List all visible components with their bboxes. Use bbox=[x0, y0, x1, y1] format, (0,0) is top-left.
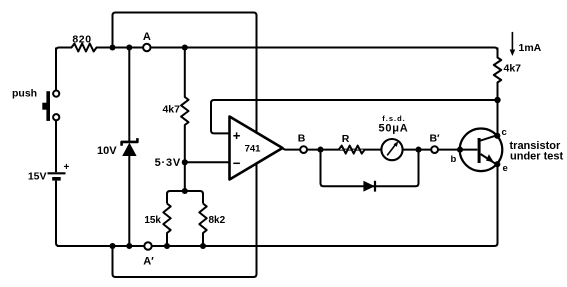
op-amp minus marker bbox=[233, 162, 240, 164]
svg-text:10V: 10V bbox=[97, 145, 117, 157]
svg-text:push: push bbox=[12, 88, 37, 100]
zener diode 10V branch wire bbox=[128, 48, 130, 142]
wire feedback from plus input to right rail bbox=[211, 100, 498, 133]
node B bbox=[300, 146, 307, 153]
svg-text:A′: A′ bbox=[143, 256, 154, 268]
resistor 4k7 left branch bbox=[181, 48, 188, 192]
battery 15V bbox=[48, 173, 66, 180]
wire op-amp output to transistor base bbox=[283, 149, 478, 150]
resistor 15k bbox=[163, 204, 170, 247]
node dot emitter bbox=[494, 161, 500, 167]
svg-text:under test: under test bbox=[510, 151, 564, 163]
svg-text:A: A bbox=[143, 31, 151, 43]
diode D1 bbox=[363, 181, 375, 192]
wire bottom rail bbox=[57, 164, 498, 246]
node dot 8k2 bottom bbox=[200, 243, 206, 249]
svg-text:820: 820 bbox=[72, 34, 91, 46]
wire bottom supply loop bbox=[113, 163, 257, 277]
node dot zener bottom bbox=[126, 243, 132, 249]
op-amp plus marker bbox=[233, 132, 240, 139]
svg-text:+: + bbox=[64, 162, 70, 173]
op-amp U1 741 bbox=[230, 117, 283, 180]
resistor 8k2 bbox=[199, 204, 206, 247]
wire divider top bar bbox=[167, 191, 203, 204]
svg-text:50μA: 50μA bbox=[378, 123, 408, 135]
node dot base bbox=[457, 147, 463, 153]
push button bbox=[42, 91, 59, 121]
wire diode bypass branch bbox=[321, 150, 419, 187]
svg-text:741: 741 bbox=[245, 144, 262, 155]
wire battery to bottom rail bbox=[56, 181, 59, 246]
resistor R bbox=[339, 146, 365, 154]
node dot collector bbox=[494, 133, 500, 139]
svg-text:e: e bbox=[503, 163, 508, 174]
wire push to battery bbox=[55, 120, 57, 172]
node dot 15k bottom bbox=[164, 243, 170, 249]
wire 5.3V node to op-amp minus input bbox=[185, 161, 230, 163]
svg-text:5·3V: 5·3V bbox=[155, 157, 181, 169]
svg-text:B: B bbox=[298, 133, 306, 145]
node dot divider top bbox=[182, 188, 188, 194]
svg-text:8k2: 8k2 bbox=[209, 215, 226, 226]
node B' bbox=[431, 146, 438, 153]
svg-text:1mA: 1mA bbox=[519, 42, 542, 54]
svg-text:4k7: 4k7 bbox=[162, 104, 180, 116]
node dot meter right junction bbox=[415, 147, 421, 153]
resistor 4k7 right branch bbox=[494, 48, 501, 137]
svg-text:R: R bbox=[342, 133, 350, 145]
svg-text:15k: 15k bbox=[144, 215, 161, 226]
node A bbox=[143, 44, 150, 51]
zener diode 10V bbox=[122, 138, 138, 156]
wire top rail with resistor 820 bbox=[56, 44, 498, 52]
wire left branch upper bbox=[55, 48, 57, 91]
svg-text:4k7: 4k7 bbox=[504, 63, 522, 75]
node dot top rail loop bbox=[109, 44, 115, 50]
svg-text:B′: B′ bbox=[429, 133, 440, 145]
node dot 5.3V bbox=[182, 159, 188, 165]
svg-text:c: c bbox=[502, 127, 507, 138]
wire top feedback loop bbox=[113, 13, 257, 133]
current arrow 1mA bbox=[510, 32, 516, 56]
node dot 4k7 top bbox=[182, 44, 188, 50]
node A' bbox=[144, 242, 151, 249]
transistor Q1 under test bbox=[460, 129, 503, 172]
node dot feedback right bbox=[494, 97, 500, 103]
svg-text:15V: 15V bbox=[28, 171, 47, 183]
svg-text:b: b bbox=[451, 154, 457, 165]
node dot B junction bbox=[317, 147, 323, 153]
meter M1 50uA bbox=[381, 139, 402, 160]
node dot bottom loop bbox=[109, 243, 115, 249]
node dot zener top bbox=[126, 44, 132, 50]
